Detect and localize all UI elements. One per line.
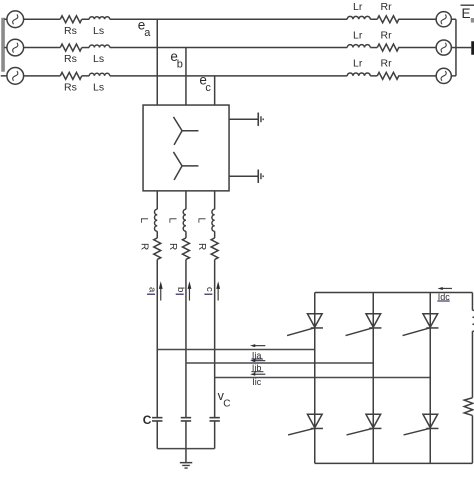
thyristor T1 xyxy=(287,314,323,336)
inductor Lr phase b xyxy=(347,45,370,48)
svg-text:Lr: Lr xyxy=(353,1,363,13)
wire xyxy=(82,47,90,49)
inductor Ls phase a xyxy=(89,17,109,20)
wire xyxy=(370,18,377,20)
inductor Lr phase c xyxy=(347,73,370,76)
resistor Rr phase c xyxy=(377,72,399,79)
wire b below box xyxy=(185,191,187,209)
svg-text:Rr: Rr xyxy=(381,29,393,41)
source bus bar left xyxy=(1,18,5,72)
wire xyxy=(214,231,216,238)
AC source Erb xyxy=(436,40,456,55)
svg-text:Lr: Lr xyxy=(353,29,363,41)
wire phase a left xyxy=(23,18,60,20)
wire to source xyxy=(398,18,436,20)
wire Ijc xyxy=(215,376,431,378)
wire a down to cap xyxy=(156,259,158,417)
wire to source xyxy=(398,47,436,49)
inductor Lr phase a xyxy=(347,16,370,19)
node ea drop wire xyxy=(156,19,158,105)
wire phase c left xyxy=(23,75,60,77)
arrow ib xyxy=(188,281,192,300)
wire phase b to Lr xyxy=(110,47,348,49)
svg-text:Rs: Rs xyxy=(64,81,77,93)
svg-text:Idc: Idc xyxy=(438,292,451,302)
transformer secondary Y xyxy=(173,152,198,180)
wire to E bar xyxy=(456,47,471,49)
AC source Era xyxy=(436,12,456,27)
ground secondary xyxy=(229,170,263,183)
label Idc xyxy=(437,292,450,302)
inductor Ls phase b xyxy=(89,45,109,48)
capacitor C phase c xyxy=(209,418,219,449)
svg-text:a: a xyxy=(146,287,157,293)
wire xyxy=(156,231,158,238)
arrow Ijb xyxy=(250,359,265,362)
wire Ija xyxy=(157,349,315,351)
wire xyxy=(471,331,473,398)
wire xyxy=(370,47,377,49)
inductor L phase b xyxy=(183,209,186,231)
label ic xyxy=(204,287,215,294)
wire xyxy=(82,18,90,20)
inductor L phase c xyxy=(212,209,215,231)
svg-text:b: b xyxy=(177,59,183,71)
label E with overline xyxy=(461,5,474,22)
arrow Idc xyxy=(438,287,452,290)
thyristor T6 xyxy=(347,414,382,435)
svg-text:L: L xyxy=(138,218,149,224)
bridge bottom bus xyxy=(315,462,473,464)
resistor Rs phase b xyxy=(60,44,81,51)
wire xyxy=(471,415,473,463)
ground main xyxy=(180,449,192,468)
svg-text:Iic: Iic xyxy=(252,377,261,387)
svg-text:Ls: Ls xyxy=(93,53,104,65)
wire phase a to Lr xyxy=(110,18,348,20)
svg-text:C: C xyxy=(143,413,152,427)
arrow ic xyxy=(216,281,220,300)
bridge leg a xyxy=(314,293,316,464)
right source bus xyxy=(455,19,457,76)
resistor R phase b xyxy=(182,238,189,260)
dc bus right segment top xyxy=(471,293,473,311)
AC source Erc xyxy=(436,68,456,83)
capacitor C phase b xyxy=(181,418,191,449)
svg-text:c: c xyxy=(204,287,215,292)
svg-text:b: b xyxy=(175,287,186,292)
svg-text:R: R xyxy=(139,243,150,250)
ground primary xyxy=(229,113,263,126)
wire phase b left xyxy=(23,47,60,49)
node eb drop wire xyxy=(185,48,187,106)
thyristor T4 xyxy=(288,414,323,435)
svg-text:L: L xyxy=(167,218,178,224)
label Ija xyxy=(251,350,263,360)
resistor Rdc xyxy=(464,398,473,416)
wire Ijb xyxy=(186,362,373,364)
AC source Vsa xyxy=(4,11,23,28)
wire b down to cap xyxy=(185,259,187,417)
arrow Ija xyxy=(250,344,265,347)
svg-text:a: a xyxy=(144,27,151,39)
resistor Rr phase b xyxy=(377,44,399,51)
svg-text:Rr: Rr xyxy=(381,1,393,13)
wire xyxy=(370,75,377,77)
wire c below box xyxy=(214,191,216,209)
resistor Rr phase a xyxy=(377,16,399,23)
thyristor T2 xyxy=(404,414,439,435)
label ib xyxy=(175,287,186,294)
node ec drop wire xyxy=(214,76,216,105)
svg-text:Rs: Rs xyxy=(64,53,77,65)
bridge top bus xyxy=(315,292,473,294)
svg-text:C: C xyxy=(223,399,230,410)
svg-text:E: E xyxy=(462,6,471,21)
arrow Ijc xyxy=(250,373,265,376)
svg-text:R: R xyxy=(196,243,207,250)
AC source Vsb xyxy=(4,39,23,56)
thyristor T3 xyxy=(346,314,382,336)
inductor Ls phase c xyxy=(89,73,109,76)
svg-text:Rs: Rs xyxy=(64,25,77,37)
wire xyxy=(82,75,90,77)
resistor R phase a xyxy=(154,238,161,260)
svg-text:L: L xyxy=(195,218,206,224)
E terminal bar xyxy=(471,41,474,55)
label ia xyxy=(146,287,157,294)
svg-text:Lr: Lr xyxy=(353,58,363,70)
resistor Rs phase c xyxy=(60,72,81,79)
label Ijb xyxy=(251,363,263,373)
inductor L phase a xyxy=(155,209,158,231)
resistor Rs phase a xyxy=(60,16,81,23)
capacitor C phase a xyxy=(152,418,162,449)
thyristor T5 xyxy=(403,314,439,336)
AC source Vsc xyxy=(1,68,24,85)
wire to source xyxy=(398,75,436,77)
svg-text:Rr: Rr xyxy=(381,58,393,70)
bridge leg b xyxy=(372,293,374,464)
bridge leg c xyxy=(429,293,431,464)
wire a below box xyxy=(156,191,158,209)
svg-text:Ls: Ls xyxy=(93,25,104,37)
inductor Ldc xyxy=(472,310,474,331)
wire xyxy=(185,231,187,238)
arrow ia xyxy=(159,281,163,300)
transformer box xyxy=(143,105,229,191)
svg-text:c: c xyxy=(205,82,211,94)
transformer primary Y xyxy=(173,117,198,145)
resistor R phase c xyxy=(211,238,218,260)
svg-text:Ls: Ls xyxy=(93,81,104,93)
wire c down to cap xyxy=(214,259,216,417)
svg-text:R: R xyxy=(167,243,178,250)
wire phase c to Lr xyxy=(110,75,348,77)
capacitor bottom bus xyxy=(157,448,214,450)
